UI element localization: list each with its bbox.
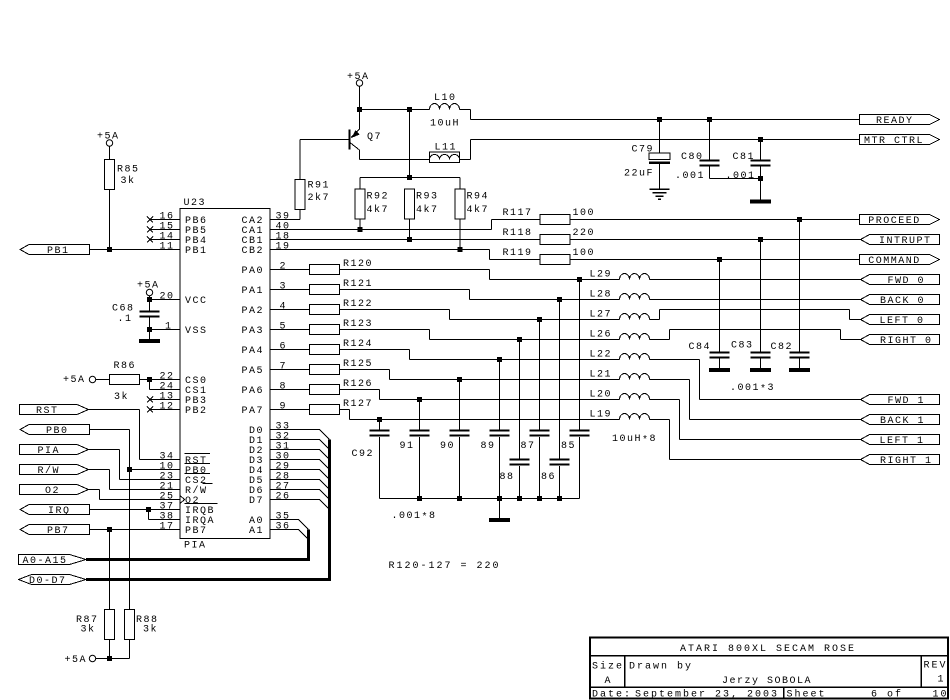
inductor L19	[590, 410, 658, 447]
capacitor C82 .001	[771, 220, 810, 369]
pin 35 A0 (right)	[249, 512, 291, 528]
pin 16 PB6 (left)	[147, 212, 208, 228]
junction top bus	[407, 175, 412, 180]
svg-text:3k: 3k	[121, 175, 136, 187]
wire L29 out to FWD 0	[650, 279, 861, 281]
wire Q7 collector to L11	[360, 159, 430, 161]
resistor R91 2k7	[295, 140, 330, 220]
wire +5A to R87 R88	[96, 658, 130, 660]
resistor R88 3k	[125, 470, 159, 659]
pin 31 D2 (right)	[249, 442, 291, 458]
svg-text:PA1: PA1	[242, 286, 265, 297]
pin 6 PA4 (right)	[242, 342, 288, 358]
pin 39 CA2 (right)	[242, 212, 291, 228]
junction ground bus	[417, 496, 422, 501]
wire CS1 tie to pin 24	[150, 380, 181, 390]
capacitor C84 .001	[689, 260, 730, 369]
label R120-127 = 220	[389, 561, 501, 572]
svg-text:L20: L20	[590, 390, 613, 401]
wire VSS pin 1	[150, 329, 181, 331]
svg-text:RIGHT 0: RIGHT 0	[880, 336, 933, 347]
capacitor 87 (bank .001*8)	[521, 320, 550, 499]
flag INTRUPT	[861, 235, 940, 248]
svg-text:12: 12	[160, 402, 175, 413]
svg-text:90: 90	[440, 441, 455, 452]
wire R86 to CS0 pin 22	[140, 379, 181, 381]
junction PA2 row / bypass cap	[537, 317, 542, 322]
wire PB1 to pin 11	[90, 249, 181, 251]
pin 5 PA3 (right)	[242, 322, 288, 338]
resistor R94 4k7	[455, 178, 489, 250]
junction IRQ / IRQA tie	[146, 507, 151, 512]
wire A1 pin 36 bus entry	[270, 530, 309, 540]
svg-text:3k: 3k	[114, 391, 129, 403]
svg-text:R123: R123	[343, 319, 373, 330]
pin 13 PB3 (left)	[147, 392, 208, 408]
flag RST	[20, 405, 89, 418]
svg-text:L29: L29	[590, 270, 613, 281]
svg-text:PB7: PB7	[185, 526, 208, 537]
pin 15 PB5 (left)	[147, 222, 208, 238]
flag PIA	[20, 445, 89, 458]
svg-text:+5A: +5A	[63, 375, 86, 386]
flag BACK 0	[861, 295, 940, 308]
power +5A (Q7 collector rail)	[347, 72, 370, 86]
svg-text:Drawn by: Drawn by	[629, 661, 693, 673]
wire R119 to COMMAND	[570, 259, 860, 261]
wire Q7 base	[300, 139, 349, 141]
svg-text:87: 87	[521, 441, 536, 452]
pin 36 A1 (right)	[249, 522, 291, 538]
svg-text:Q7: Q7	[367, 132, 382, 143]
svg-text:100: 100	[573, 248, 596, 259]
wire L10 to READY line	[460, 110, 860, 120]
svg-text:R119: R119	[503, 248, 533, 259]
resistor R127 220	[270, 399, 373, 415]
ground bar below C81	[750, 200, 771, 204]
svg-text:R121: R121	[343, 279, 373, 290]
svg-text:PA7: PA7	[242, 406, 265, 417]
svg-text:PA0: PA0	[242, 266, 265, 277]
svg-text:3: 3	[280, 282, 288, 293]
junction PA5 row / bypass cap	[457, 377, 462, 382]
pin 25 O2 (left)	[160, 492, 201, 508]
pin 1 VSS (left)	[165, 322, 208, 338]
wire CB1 (pin 18) to R118	[270, 239, 540, 241]
pin 22 CS0 (left)	[160, 372, 208, 388]
wire PA1 net to inductor row	[340, 290, 620, 300]
junction ground bus	[557, 496, 562, 501]
svg-text:100: 100	[573, 208, 596, 219]
wire D2 bus entry	[270, 450, 330, 460]
wire IRQ flag to pin 37	[90, 509, 181, 511]
svg-text:September 23, 2003: September 23, 2003	[635, 689, 779, 700]
svg-text:COMMAND: COMMAND	[868, 256, 921, 267]
capacitor C83 .001	[731, 240, 771, 369]
pin 7 PA5 (right)	[242, 362, 288, 378]
wire O2 flag to pin 25	[89, 490, 181, 500]
resistor R93 4k7	[405, 189, 439, 240]
pin 29 D4 (right)	[249, 462, 291, 478]
svg-text:.001: .001	[726, 171, 756, 182]
transistor Q7	[349, 110, 383, 160]
junction PA7 row / bypass cap	[377, 417, 382, 422]
bus A0-A15	[86, 530, 310, 562]
svg-text:C83: C83	[731, 341, 754, 352]
svg-text:R118: R118	[503, 228, 533, 239]
wire L11 to MTR CTRL line	[460, 140, 860, 160]
inductor L11 (shielded)	[430, 143, 460, 163]
resistor R121 220	[270, 279, 373, 295]
wire D3 bus entry	[270, 460, 330, 470]
junction PA3 row / bypass cap	[517, 337, 522, 342]
svg-text:.001*3: .001*3	[730, 383, 775, 396]
wire D4 bus entry	[270, 470, 330, 480]
wire CA1 (pin 40) to R117	[270, 220, 540, 230]
svg-text:.001: .001	[675, 171, 705, 182]
svg-text:INTRUPT: INTRUPT	[879, 236, 932, 247]
inductor L27	[590, 310, 650, 321]
svg-text:PB1: PB1	[185, 246, 208, 257]
svg-text:A0-A15: A0-A15	[23, 556, 68, 567]
junction ground bus	[537, 496, 542, 501]
wire C80 bottom to C81 bottom	[710, 178, 761, 180]
svg-text:R94: R94	[467, 192, 490, 203]
junction PB7 / R87	[107, 527, 112, 532]
svg-text:88: 88	[500, 472, 515, 483]
svg-text:RIGHT 1: RIGHT 1	[880, 456, 933, 467]
junction PA1 row / bypass cap	[557, 297, 562, 302]
power +5A at R87/R88	[65, 655, 96, 666]
svg-text:A1: A1	[249, 526, 264, 537]
resistor R123 220	[270, 319, 373, 335]
svg-text:LEFT 1: LEFT 1	[880, 436, 925, 447]
ground bar below C82	[789, 368, 810, 372]
svg-text:Jerzy SOBOLA: Jerzy SOBOLA	[722, 676, 812, 687]
pin 32 D1 (right)	[249, 432, 291, 448]
svg-text:L19: L19	[590, 410, 613, 421]
junction COMMAND / C84	[717, 257, 722, 262]
wire R117 to PROCEED	[570, 219, 860, 221]
flag BACK 1	[861, 415, 940, 428]
title block Size cell	[592, 661, 624, 688]
flag LEFT 0	[861, 315, 940, 328]
svg-text:4k7: 4k7	[416, 204, 439, 216]
svg-text:CB2: CB2	[242, 246, 265, 257]
ground (earth) below C79	[650, 189, 670, 199]
wire PA4 net to inductor row	[340, 350, 620, 360]
svg-text:L10: L10	[434, 93, 457, 104]
svg-text:L11: L11	[435, 143, 458, 154]
pin 28 D5 (right)	[249, 472, 291, 488]
title block Sheet cell	[787, 689, 949, 700]
svg-text:R120-127 = 220: R120-127 = 220	[389, 561, 501, 572]
svg-text:BACK 0: BACK 0	[880, 296, 925, 307]
svg-text:FWD 0: FWD 0	[888, 276, 926, 287]
pin 4 PA2 (right)	[242, 302, 288, 318]
svg-text:PB2: PB2	[185, 406, 208, 417]
wire PA7 net to inductor row	[340, 410, 620, 420]
junction VCC / C68	[147, 297, 152, 302]
wire PA2 net to inductor row	[340, 310, 620, 320]
svg-text:2k7: 2k7	[308, 192, 331, 204]
resistor R124 220	[270, 339, 373, 355]
pin 37 IRQB (left)	[160, 502, 218, 518]
junction PROCEED / C82	[797, 217, 802, 222]
inductor L21	[590, 370, 650, 381]
svg-text:R/W: R/W	[38, 465, 61, 477]
svg-text:L21: L21	[590, 370, 613, 381]
junction C81 bottom	[758, 176, 763, 181]
resistor R119 100	[503, 248, 596, 265]
svg-text:1: 1	[938, 675, 946, 686]
svg-text:R85: R85	[117, 165, 140, 176]
junction INTRUPT / C83	[758, 237, 763, 242]
wire rail to L10	[360, 109, 430, 111]
title block frame	[590, 638, 948, 699]
svg-text:C79: C79	[632, 145, 655, 156]
svg-text:MTR CTRL: MTR CTRL	[864, 136, 924, 147]
svg-text:C82: C82	[771, 342, 794, 353]
wire PA6 net to inductor row	[340, 390, 620, 400]
flag D0-D7 (bus)	[19, 575, 87, 588]
svg-text:91: 91	[400, 441, 415, 452]
svg-text:3k: 3k	[143, 624, 158, 636]
wire PA3 net to inductor row	[340, 330, 620, 340]
svg-text:PIA: PIA	[184, 541, 207, 552]
pin 20 VCC (left)	[160, 292, 208, 308]
wire PB0 flag to pin 10	[90, 430, 181, 470]
junction CS0 / CS1 tie	[147, 377, 152, 382]
svg-text:Size: Size	[592, 661, 624, 673]
svg-text:L26: L26	[590, 330, 613, 341]
svg-text:R86: R86	[114, 361, 137, 372]
flag PB1	[20, 245, 90, 258]
ground bar below C83	[750, 368, 771, 372]
svg-text:PA4: PA4	[242, 346, 265, 357]
wire CB2 (pin 19) to R119	[270, 250, 540, 260]
resistor R120 220	[270, 259, 373, 275]
wire L28 out to BACK 0	[650, 299, 861, 301]
flag FWD 1	[861, 395, 940, 408]
svg-text:R91: R91	[308, 181, 331, 192]
resistor R126 220	[270, 379, 373, 395]
svg-text:R126: R126	[343, 379, 373, 390]
svg-text:PB0: PB0	[46, 426, 69, 437]
svg-text:O2: O2	[45, 486, 60, 497]
junction rail / R92-R94 feed	[407, 107, 412, 112]
flag RIGHT 1	[861, 455, 940, 468]
resistor R92 4k7	[355, 178, 389, 230]
svg-text:RST: RST	[36, 406, 59, 417]
inductor L28	[590, 290, 650, 301]
svg-text:C84: C84	[689, 342, 712, 353]
pin 10 PB0 (left)	[160, 462, 211, 478]
pin 33 D0 (right)	[249, 422, 291, 438]
wire cap bank ground bus	[380, 498, 580, 500]
svg-text:PA6: PA6	[242, 386, 265, 397]
pin 9 PA7 (right)	[242, 402, 288, 418]
wire R118 to INTRUPT	[570, 239, 861, 241]
pin 17 PB7 (left)	[160, 522, 208, 538]
flag A0-A15 (bus)	[19, 555, 87, 568]
flag COMMAND	[860, 255, 940, 268]
junction +5A / R87	[107, 656, 112, 661]
svg-text:20: 20	[160, 292, 175, 303]
svg-text:C80: C80	[681, 152, 704, 163]
svg-text:PB7: PB7	[47, 526, 70, 537]
svg-text:10uH*8: 10uH*8	[612, 434, 657, 447]
wire PB7 flag to pin 17	[90, 529, 181, 531]
pin 8 PA6 (right)	[242, 382, 288, 398]
pin 21 R/W (left)	[160, 482, 213, 498]
ground bar below C84	[709, 368, 730, 372]
svg-text:22uF: 22uF	[624, 169, 654, 180]
title text ATARI 800XL SECAM ROSE	[680, 644, 856, 655]
svg-text:R124: R124	[343, 339, 373, 350]
flag RIGHT 0	[861, 335, 940, 348]
svg-text:7: 7	[280, 362, 288, 373]
svg-text:PIA: PIA	[38, 446, 61, 457]
svg-text:.001*8: .001*8	[392, 511, 437, 524]
svg-text:26: 26	[276, 492, 291, 503]
resistor R122 220	[270, 299, 373, 315]
svg-text:89: 89	[481, 441, 496, 452]
resistor R125 220	[270, 359, 373, 375]
svg-text:R93: R93	[416, 192, 439, 203]
svg-text:READY: READY	[876, 116, 914, 127]
power +5A at R86	[63, 375, 96, 386]
wire RST flag to pin 34	[89, 410, 181, 460]
wire L19 out to RIGHT 1	[650, 420, 861, 460]
flag O2	[20, 485, 89, 498]
svg-text:4: 4	[280, 302, 288, 313]
svg-text:86: 86	[541, 472, 556, 483]
resistor R117 100	[503, 208, 596, 225]
junction READY / C79	[657, 117, 662, 122]
svg-text:+5A: +5A	[97, 132, 120, 143]
svg-text:D0-D7: D0-D7	[29, 576, 67, 587]
flag PROCEED	[860, 215, 940, 228]
svg-text:19: 19	[276, 242, 291, 253]
wire D6 bus entry	[270, 490, 330, 500]
ground bar for cap bank	[489, 499, 510, 523]
junction VSS / C68 / ground	[147, 327, 152, 332]
svg-text:10uH: 10uH	[430, 119, 460, 130]
wire D0 bus entry	[270, 430, 330, 440]
svg-text:9: 9	[280, 402, 288, 413]
wire L21 out to BACK 1	[650, 380, 861, 420]
svg-text:85: 85	[561, 441, 576, 452]
inductor L26	[590, 330, 650, 341]
svg-text:R122: R122	[343, 299, 373, 310]
svg-text:2: 2	[280, 262, 288, 273]
svg-text:R120: R120	[343, 259, 373, 270]
svg-text:Sheet: Sheet	[787, 689, 827, 700]
wire D5 bus entry	[270, 480, 330, 490]
power +5A at VCC	[137, 281, 160, 296]
svg-text:17: 17	[160, 522, 175, 533]
label .001*3	[730, 383, 775, 396]
capacitor 89 (bank .001*8)	[481, 360, 510, 499]
pin 34 RST (left)	[160, 452, 211, 468]
wire PA0 net to inductor row	[340, 270, 620, 280]
bus D0-D7	[86, 440, 331, 582]
flag MTR CTRL	[860, 135, 940, 148]
svg-text:4k7: 4k7	[467, 204, 490, 216]
svg-text:3k: 3k	[81, 624, 96, 636]
pin 11 PB1 (left)	[160, 242, 208, 258]
capacitor 90 (bank .001*8)	[440, 380, 470, 499]
junction READY / C80	[707, 117, 712, 122]
wire D7 bus entry	[270, 500, 330, 510]
svg-text:6 of: 6 of	[871, 689, 903, 700]
wire L20 out to LEFT 1	[650, 400, 861, 440]
pin 23 CS2 (left)	[160, 472, 211, 488]
svg-text:IRQ: IRQ	[48, 506, 71, 517]
flag LEFT 1	[861, 435, 940, 448]
svg-text:L27: L27	[590, 310, 613, 321]
pin 2 PA0 (right)	[242, 262, 288, 278]
inductor L29	[590, 270, 650, 281]
svg-text:36: 36	[276, 522, 291, 533]
junction PA4 row / bypass cap	[497, 357, 502, 362]
pin 26 D7 (right)	[249, 492, 291, 508]
pin 24 CS1 (left)	[160, 382, 208, 398]
svg-text:+5A: +5A	[347, 72, 370, 83]
wire +5A down to rail junction	[359, 86, 361, 110]
flag IRQ	[20, 505, 90, 518]
junction at +5A rail / Q7 emitter	[357, 107, 362, 112]
svg-text:L22: L22	[590, 350, 613, 361]
junction PA0 row / bypass cap	[577, 277, 582, 282]
svg-text:LEFT 0: LEFT 0	[880, 316, 925, 327]
wire PA5 net to inductor row	[340, 370, 620, 380]
wire R92-R94 top bus	[360, 110, 460, 178]
svg-text:4k7: 4k7	[367, 204, 390, 216]
label .001*8	[392, 511, 437, 524]
junction R93 / CB1 line	[407, 237, 412, 242]
capacitor 88 (bank .001*8)	[500, 340, 530, 499]
pin 30 D3 (right)	[249, 452, 291, 468]
pin 27 D6 (right)	[249, 482, 291, 498]
flag PB7	[20, 525, 90, 538]
svg-text:Date:: Date:	[592, 690, 632, 700]
pin 12 PB2 (left)	[147, 402, 208, 418]
wire L22 out to FWD 1	[650, 360, 861, 400]
resistor R118 220	[503, 228, 596, 245]
svg-text:.1: .1	[118, 314, 133, 325]
junction MTR CTRL / C81	[758, 137, 763, 142]
svg-text:A: A	[605, 676, 613, 687]
power +5A above R85	[97, 132, 120, 147]
junction PB0 / R88	[127, 467, 132, 472]
svg-text:VCC: VCC	[185, 296, 208, 307]
svg-text:PA5: PA5	[242, 366, 265, 377]
title block REV cell	[924, 661, 948, 686]
svg-text:PB1: PB1	[47, 246, 70, 257]
svg-text:BACK 1: BACK 1	[880, 416, 925, 427]
pin 40 CA1 (right)	[242, 222, 291, 238]
junction R92 / CA1 line	[358, 227, 363, 232]
svg-text:PA3: PA3	[242, 326, 265, 337]
resistor R85 3k	[105, 146, 140, 250]
capacitor C81 .001	[726, 140, 771, 200]
capacitor C80 .001	[675, 120, 720, 183]
wire CA2 stub to R91	[270, 219, 300, 221]
svg-text:VSS: VSS	[185, 326, 208, 337]
junction R94 / CB2 line	[458, 247, 463, 252]
